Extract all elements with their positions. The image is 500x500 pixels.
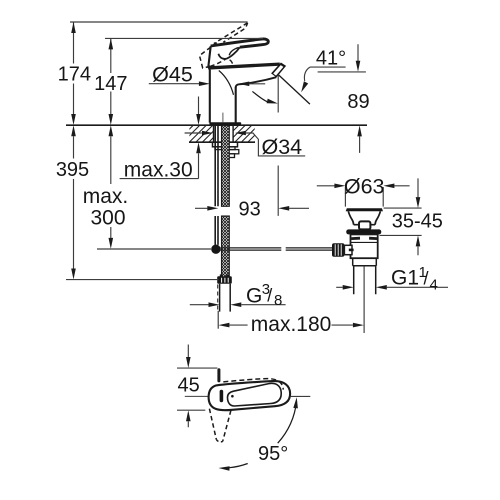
faucet body [208,46,235,123]
svg-text:/: / [267,286,272,306]
arrow dim 89 bottom [357,125,362,136]
dim G114 [336,286,448,288]
handle plan outline [209,381,291,410]
rod adjuster knob [332,243,344,256]
svg-text:Ø63: Ø63 [344,174,385,198]
handle rear nub [217,370,220,381]
dim max180 [229,324,353,326]
arrow dim G38 right [230,302,241,307]
svg-text:8: 8 [274,292,282,309]
41deg angle arc [252,91,269,102]
svg-text:147: 147 [94,73,127,95]
dim max300 bottom reference [97,248,211,250]
pipe centre reference (dashed above, solid below) [217,285,219,311]
svg-text:95°: 95° [258,443,288,465]
arrow dim 35-45 bottom [416,235,421,246]
dim G38 [190,304,286,306]
dim max300 line [110,136,112,238]
arrow dim 174 bottom [71,114,76,125]
arrow dim 93 right [278,206,289,211]
95deg reference right [290,395,310,397]
svg-text:4: 4 [430,277,438,294]
hose end fitting [217,276,232,284]
dim 89 line [358,44,360,153]
svg-text:45: 45 [177,375,199,397]
drain lower neck [353,258,377,266]
dim dia34 leader [185,133,306,156]
dim 174 reference top [70,21,248,23]
svg-text:G1: G1 [391,267,419,290]
arrow dim max30 top [196,114,201,125]
arrow dim max180 right [353,323,364,328]
supply pipe [220,284,231,312]
svg-text:89: 89 [347,91,369,113]
dim 395 bottom reference [66,279,219,281]
handle plan dashed alternate [223,379,283,390]
svg-text:395: 395 [56,159,89,181]
arrow dim 147 top [109,38,114,49]
arrow dim dia63 left [334,184,345,189]
mounting shank walls [214,125,234,141]
arrow dim dia45 right [238,82,249,87]
drain funnel [348,211,380,224]
arrow dim max300 top [109,125,114,136]
arrow dim dia45 left [199,81,210,86]
clevis bracket [344,245,352,254]
pop-up rod (vertical) [215,125,218,244]
body centre mark [222,113,224,123]
counter hatch right [233,126,254,142]
dim 45 top [177,345,217,428]
body base gasket [209,122,241,125]
counter hatch left [189,126,213,142]
svg-text:Ø34: Ø34 [261,135,302,159]
dim max30 arrows+leader [120,97,199,179]
arrow dim max30 bottom [196,142,201,153]
dim 147 line [110,38,112,114]
handle plan centreline left [185,395,210,397]
dim 41deg leader [304,67,345,81]
svg-text:max.180: max.180 [251,313,332,336]
dim dia63 [317,186,410,207]
tailpipe [354,266,376,294]
counter bottom line [189,141,255,143]
arrow dim 395 bottom [71,269,76,280]
arrow dim dia34 left [202,131,213,136]
spout [209,64,280,68]
dim 174 line [73,22,75,114]
braided supply hose [222,125,230,206]
drain flange top [346,208,383,211]
arrow dim 35-45 top [416,197,421,208]
faucet handle (solid, horizontal) [211,39,269,64]
dim 147 reference [105,37,263,39]
svg-text:max.: max. [83,185,129,208]
drain upper body [351,234,378,258]
spout underside [236,77,277,87]
arrow leader 41deg [301,81,308,92]
handle plan inner lever [228,383,282,406]
arrow angle arc 41deg [267,99,278,104]
svg-text:300: 300 [90,206,125,229]
arrowheads [71,22,420,327]
handle grip mark [220,392,224,401]
plug square [359,221,370,229]
arrow dim dia63 right [383,184,394,189]
counter top line [66,124,367,126]
arrow dim G114 left [343,285,354,290]
95deg arc [230,401,297,468]
label G1 1/4 [391,264,438,294]
svg-text:35-45: 35-45 [392,210,443,232]
41deg stream line [279,75,310,104]
svg-text:G: G [246,284,262,307]
svg-text:41°: 41° [316,48,346,70]
locking nut [213,142,238,147]
arrow dim 147 bottom [109,114,114,125]
dim 395 line [73,136,75,269]
svg-text:max.30: max.30 [124,158,193,181]
arrow dim max180 left [218,323,229,328]
svg-text:/: / [424,269,429,289]
aerator outlet [271,63,286,78]
arrow dim G114 right [376,285,387,290]
drain centre line [363,266,365,333]
arrow dim 395 top [71,125,76,136]
svg-text:174: 174 [58,63,91,85]
arrow dim max300 bottom [109,238,114,249]
label G3/8 [246,281,282,309]
arrow dim 89 top [356,61,361,72]
svg-text:93: 93 [238,199,260,221]
arrow dim 93 left [207,206,218,211]
o-ring band [346,229,381,234]
handle swung position (dashed) [209,409,231,442]
lever raised position (dashed) [200,23,248,68]
horizontal pop-up rod [221,248,333,250]
dim 35-45 [380,178,422,255]
internal curve [219,71,234,95]
dim dia45 [149,83,265,85]
arrow dim G38 left [209,302,220,307]
dim 89 top reference [318,71,366,73]
svg-text:Ø45: Ø45 [152,63,193,87]
dim 93 [195,207,309,209]
rod pivot joint [211,245,220,254]
arrow dim dia34 right [235,131,246,136]
spout vertical reference [277,75,279,216]
hose union steps [229,150,239,154]
arrow dim 174 top [71,22,76,33]
